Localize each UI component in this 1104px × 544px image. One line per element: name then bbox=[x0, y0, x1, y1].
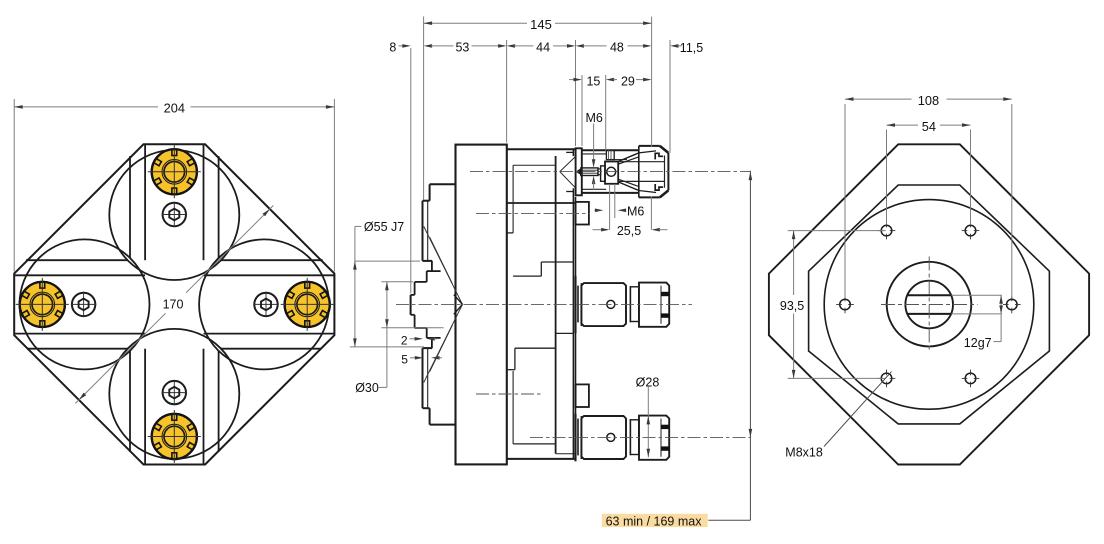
center drive stub face bbox=[410, 295, 412, 315]
svg-text:54: 54 bbox=[922, 119, 936, 134]
svg-text:48: 48 bbox=[610, 41, 624, 55]
disc face double line bbox=[572, 149, 574, 156]
svg-text:204: 204 bbox=[164, 101, 185, 116]
svg-text:93,5: 93,5 bbox=[780, 299, 804, 313]
dimension 12g7 tang slot bbox=[952, 294, 1002, 296]
dimension 25,5 bbox=[650, 197, 652, 230]
dimension row 8 / 53 / 44 / 48 / 11,5 bbox=[410, 48, 412, 294]
side view: chuck-side flange and pilot steps bbox=[430, 183, 456, 185]
top holder internal taper cone bbox=[560, 156, 576, 172]
spindle groove and spacer bbox=[625, 286, 627, 322]
svg-text:15: 15 bbox=[586, 74, 600, 88]
spindle set screw hole bbox=[607, 433, 615, 441]
coolant boss lower bbox=[576, 384, 589, 407]
apex arrow marker bbox=[454, 295, 463, 305]
spindle groove and spacer bbox=[625, 419, 627, 455]
label M6 cross hole bbox=[609, 184, 611, 230]
svg-text:2: 2 bbox=[401, 333, 408, 347]
M6 grub screw pin bbox=[576, 168, 581, 175]
dimension 170 across flats (diagonal) bbox=[75, 313, 165, 403]
left view: four yellow collet chucks bbox=[152, 149, 197, 194]
svg-text:44: 44 bbox=[536, 41, 550, 55]
rear view: center hub circle bbox=[887, 262, 972, 347]
svg-text:M8x18: M8x18 bbox=[785, 445, 823, 459]
dimension 204 overall width bbox=[13, 99, 15, 272]
spindle set screw hole bbox=[607, 300, 615, 308]
spindle mounting face bbox=[574, 414, 576, 462]
top holder body bbox=[582, 149, 639, 151]
svg-text:M6: M6 bbox=[627, 205, 644, 219]
dimension 145 overall bbox=[423, 17, 425, 200]
svg-text:145: 145 bbox=[530, 17, 552, 32]
taper cone lines converging to center apex bbox=[424, 227, 463, 305]
svg-text:25,5: 25,5 bbox=[617, 224, 641, 238]
collet nut bbox=[639, 283, 669, 327]
left view: four hex socket screws bbox=[163, 203, 186, 226]
svg-text:Ø30: Ø30 bbox=[355, 381, 379, 395]
centerlines bbox=[470, 171, 750, 173]
rear view: drive tang slot chords bbox=[907, 294, 951, 296]
spindle neck ring bbox=[577, 286, 579, 323]
spindle neck ring bbox=[577, 419, 579, 456]
svg-text:Ø28: Ø28 bbox=[636, 376, 660, 390]
svg-text:53: 53 bbox=[455, 41, 469, 55]
rear view: six M8 bolt holes bbox=[881, 225, 892, 236]
rear view: center bore bbox=[905, 281, 953, 329]
left view: cross slot edge lines bbox=[26, 259, 128, 261]
side view: housing body block bbox=[456, 145, 507, 465]
M6 tapped hole from top bbox=[606, 150, 614, 159]
dimension 93,5 bbox=[788, 230, 886, 232]
side view: turret disc bbox=[507, 148, 576, 150]
svg-text:108: 108 bbox=[918, 93, 939, 108]
rear view center crosshair bbox=[928, 257, 930, 353]
svg-text:5: 5 bbox=[401, 352, 408, 366]
svg-text:M6: M6 bbox=[586, 111, 603, 125]
left view: four circular tool pockets bbox=[109, 150, 239, 280]
rear view: outer octagon bbox=[769, 144, 1089, 464]
rear view: mounting circle bbox=[824, 200, 1034, 410]
spindle body block bbox=[581, 283, 626, 326]
dimension 108 bbox=[844, 104, 846, 298]
dimension 54 bbox=[886, 130, 888, 225]
top collet and clamping nut bbox=[638, 146, 640, 198]
rear view: inner octagon boss bbox=[809, 185, 1050, 424]
disc internal step lines bbox=[512, 165, 514, 233]
svg-text:12g7: 12g7 bbox=[964, 336, 992, 350]
top holder mounting flange bbox=[576, 148, 582, 195]
svg-text:8: 8 bbox=[389, 41, 396, 55]
spindle mounting face bbox=[574, 276, 576, 333]
adjustable range dimension 63 min / 169 max bbox=[602, 514, 708, 527]
coolant boss upper bbox=[576, 202, 589, 225]
top holder shank edges in disc bbox=[566, 151, 573, 153]
spindle body block bbox=[581, 416, 626, 459]
collet nut bbox=[639, 416, 669, 460]
disc clamp bore edge line bbox=[507, 202, 576, 204]
svg-text:11,5: 11,5 bbox=[680, 41, 703, 55]
svg-text:Ø55 J7: Ø55 J7 bbox=[364, 220, 404, 234]
cross screw block with hole bbox=[605, 162, 618, 184]
dimension row 15 / 29 bbox=[581, 75, 583, 146]
left view: octagonal turret plate outline bbox=[14, 144, 334, 464]
svg-text:29: 29 bbox=[621, 74, 635, 88]
svg-text:170: 170 bbox=[163, 297, 184, 311]
svg-text:63 min / 169 max: 63 min / 169 max bbox=[606, 515, 703, 529]
